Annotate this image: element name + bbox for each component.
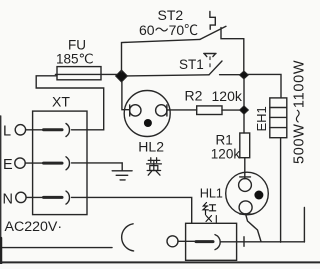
lamp HL2 — [124, 91, 170, 137]
connector X1 box — [186, 223, 237, 260]
terminal L — [15, 124, 87, 137]
svg-text:ST2: ST2 — [158, 7, 184, 23]
fuse FU — [55, 67, 117, 80]
wire lamp HL1 bottom — [246, 214, 261, 242]
wire ST2 to node B — [243, 39, 245, 71]
wire E row to ground — [87, 162, 122, 164]
svg-text:HL2: HL2 — [138, 138, 164, 154]
resistor R2 — [197, 106, 222, 115]
svg-text:L: L — [3, 123, 11, 139]
svg-text:XT: XT — [52, 94, 70, 110]
resistor R1 — [240, 133, 250, 158]
svg-text:N: N — [3, 191, 13, 207]
svg-text:R2: R2 — [185, 88, 203, 104]
svg-text:FU: FU — [68, 38, 86, 53]
terminal E — [15, 157, 87, 170]
wire node C to resistor R1 — [243, 114, 245, 133]
label X1 — [206, 216, 216, 223]
svg-text:R1: R1 — [216, 133, 233, 148]
thermostat ST2 — [200, 12, 244, 40]
wire R1 to lamp HL1 — [244, 158, 246, 179]
svg-text:120k: 120k — [211, 146, 241, 161]
terminal N — [16, 191, 87, 204]
wire bottom left rail — [0, 247, 112, 249]
wire R2 to node C — [222, 109, 240, 111]
node C junction — [240, 106, 249, 114]
wire L-row to fuse (left jog) — [36, 76, 104, 130]
node B junction — [240, 71, 249, 79]
heater EH1 — [270, 98, 287, 138]
svg-text:E: E — [3, 157, 13, 173]
svg-text:EH1: EH1 — [254, 106, 269, 131]
label hong (red) — [203, 203, 216, 215]
label huang (yellow) — [147, 158, 162, 175]
ground — [112, 163, 132, 180]
svg-text:HL1: HL1 — [200, 186, 223, 201]
terminal block XT — [33, 111, 87, 215]
lamp HL1 — [226, 172, 269, 215]
svg-text:60～70℃: 60～70℃ — [139, 22, 198, 38]
terminal X1 contact — [167, 235, 304, 250]
switch ST1 — [204, 54, 240, 75]
wire node A to ST1 — [127, 75, 210, 76]
wire N row to connector X1 — [87, 197, 192, 223]
svg-text:500W～1100W: 500W～1100W — [292, 60, 308, 164]
svg-text:185℃: 185℃ — [56, 52, 94, 67]
wire node A down to lamp HL2 — [122, 82, 130, 110]
svg-text:AC220V·: AC220V· — [5, 219, 63, 235]
svg-text:ST1: ST1 — [179, 57, 204, 72]
wire EH1 bottom down — [280, 138, 282, 243]
wire node B down to node C — [243, 79, 245, 106]
wire node B to EH1 top — [248, 74, 281, 98]
wire HL2 to resistor R2 — [167, 109, 197, 111]
svg-text:120k: 120k — [212, 88, 243, 104]
node A junction — [116, 70, 128, 82]
wire bottom right riser — [303, 208, 305, 243]
wire node A up to ST2 rail — [122, 39, 201, 72]
connector arc — [122, 224, 134, 251]
